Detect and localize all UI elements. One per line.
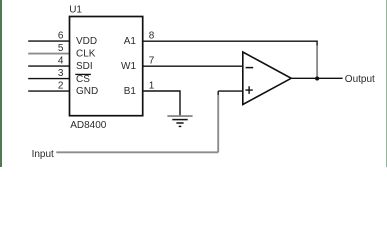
svg-text:AD8400: AD8400 [70, 120, 107, 131]
svg-text:CLK: CLK [76, 49, 96, 60]
svg-text:4: 4 [58, 56, 64, 67]
svg-text:A1: A1 [124, 36, 137, 47]
svg-text:Output: Output [345, 74, 375, 85]
svg-text:3: 3 [58, 68, 64, 79]
svg-text:W1: W1 [121, 61, 136, 72]
svg-text:U1: U1 [69, 5, 82, 16]
svg-text:VDD: VDD [76, 36, 97, 47]
svg-text:2: 2 [58, 81, 64, 92]
svg-text:Input: Input [32, 149, 54, 160]
svg-text:1: 1 [149, 81, 155, 92]
svg-text:SDI: SDI [76, 61, 93, 72]
svg-text:7: 7 [149, 56, 155, 67]
svg-text:6: 6 [58, 31, 64, 42]
svg-text:8: 8 [149, 31, 155, 42]
svg-text:CS: CS [76, 74, 90, 85]
svg-text:GND: GND [76, 86, 98, 97]
svg-text:B1: B1 [124, 86, 137, 97]
svg-text:5: 5 [58, 43, 64, 54]
